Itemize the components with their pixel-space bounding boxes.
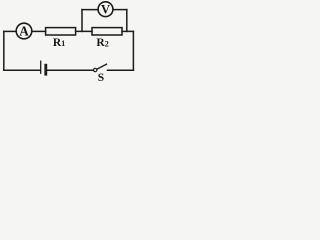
- wire voltmeter branch top-left horizontal: [82, 9, 98, 11]
- svg-text:V: V: [101, 2, 110, 16]
- wire voltmeter branch right vertical: [126, 10, 128, 32]
- wire R2 to top-right corner: [122, 30, 133, 32]
- wire right vertical: [132, 31, 134, 70]
- voltmeter V: [98, 2, 113, 17]
- resistor R2: [92, 28, 122, 50]
- resistor R1: [46, 28, 76, 49]
- wire voltmeter branch top-right horizontal: [113, 9, 127, 11]
- svg-text:1: 1: [61, 39, 65, 48]
- svg-text:2: 2: [105, 40, 109, 49]
- wire R1 to R2 (junction with voltmeter branch): [76, 30, 92, 32]
- switch S: [94, 64, 107, 84]
- wire bottom-right to switch: [108, 69, 134, 71]
- svg-text:A: A: [19, 24, 29, 39]
- svg-text:S: S: [98, 72, 104, 84]
- wire ammeter to R1: [32, 30, 46, 32]
- wire switch to battery: [47, 69, 94, 71]
- ammeter A: [16, 23, 32, 39]
- wire battery to bottom-left corner: [4, 69, 40, 71]
- wire left vertical: [3, 31, 5, 70]
- battery cell: [41, 61, 46, 74]
- wire voltmeter branch left vertical: [81, 10, 83, 32]
- wire top-left to ammeter: [4, 30, 16, 32]
